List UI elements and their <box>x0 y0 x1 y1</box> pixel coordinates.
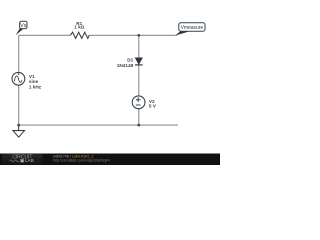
source V2 (5 V) <box>132 96 145 109</box>
svg-text:1 kΩ: 1 kΩ <box>74 25 85 30</box>
svg-text:Vs: Vs <box>20 23 27 29</box>
logo sine squiggle <box>10 160 20 162</box>
logo LAB icon <box>21 159 24 162</box>
svg-text:D1: D1 <box>127 58 133 63</box>
node junction dot: top rail / diode branch <box>138 34 141 37</box>
flag Vs box <box>20 21 27 28</box>
resistor R1 <box>70 32 89 38</box>
flag Vmeasure box <box>179 23 205 31</box>
flag Vmeasure tail <box>175 31 190 35</box>
node junction dot: bottom rail / V2 <box>138 124 141 127</box>
wire: bottom horizontal rail <box>19 124 178 126</box>
source V1 (sine) <box>12 72 25 85</box>
svg-text:Vmeasure: Vmeasure <box>181 25 204 31</box>
wire: diode branch from top rail to diode anode <box>138 35 140 58</box>
wire: diode cathode to V2 top <box>138 65 140 96</box>
wire: top horizontal net from Vs node to resistor <box>19 34 71 36</box>
wire: top horizontal net from resistor to Vmeasure <box>89 34 177 36</box>
svg-text:1N4148: 1N4148 <box>117 63 134 68</box>
diode D1 <box>135 58 142 65</box>
ground <box>13 125 25 137</box>
footer bar <box>0 154 220 166</box>
wire: V1 bottom to bottom rail <box>18 85 20 125</box>
svg-text:5 V: 5 V <box>149 104 157 109</box>
svg-text:LAB: LAB <box>25 158 34 163</box>
wire: V2 bottom to bottom rail <box>138 109 140 125</box>
svg-text:sine: sine <box>29 79 39 84</box>
node junction dot: bottom rail / ground <box>17 124 20 127</box>
flag Vs tail <box>16 28 24 35</box>
svg-text:1 kHz: 1 kHz <box>29 85 42 90</box>
svg-text:http://circuitlab.com/c4qe33bz: http://circuitlab.com/c4qe33bzt0qtr4 <box>53 159 110 163</box>
wire: left vertical from Vs node to V1 top <box>18 35 20 72</box>
